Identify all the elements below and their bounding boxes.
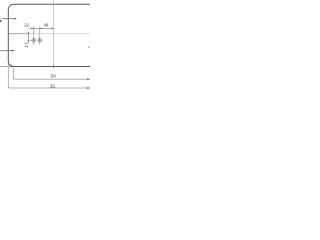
17 vertical dimension line — [28, 32, 30, 43]
svg-text:311: 311 — [50, 84, 56, 89]
254 right arrow — [87, 78, 90, 80]
svg-text:254: 254 — [50, 74, 56, 79]
311 extension line (below part left edge) — [8, 63, 90, 89]
right edge speck — [88, 46, 89, 48]
17 top arrow — [28, 32, 29, 34]
311 right arrow — [87, 87, 90, 89]
hole 1 horizontal centermark — [31, 39, 36, 41]
svg-text:22: 22 — [24, 23, 29, 28]
part outline bottom edge — [14, 66, 90, 68]
arrow at x=39.7 pointing left (22 right / 46 left) — [40, 28, 42, 30]
internal seam line y=33.7 — [9, 33, 29, 35]
leader arrow middle-left — [0, 50, 12, 52]
part outline left edge — [7, 10, 9, 61]
centerline tick crossing bottom edge — [53, 64, 55, 69]
hole 2 — [38, 38, 42, 42]
hole 1 — [32, 38, 36, 42]
254 extension bracket — [14, 67, 91, 79]
part outline bottom-left corner arc — [8, 61, 14, 67]
leader arrow top (cropped label) — [2, 18, 15, 20]
part outline top edge — [14, 3, 90, 5]
leader line bottom-left to bottom edge — [0, 65, 11, 67]
part outline top-left corner arc — [8, 4, 13, 10]
dimension line y=28.4 (22 and 46) — [30, 27, 54, 29]
arrow at x=33.7 pointing right (22 left, outside) — [32, 28, 34, 30]
svg-text:17: 17 — [24, 42, 29, 48]
centerline x=53.5 — [53, 0, 55, 64]
17 extension at hole level — [27, 40, 32, 42]
svg-text:46: 46 — [44, 22, 49, 27]
arrow at x=53.6 pointing right (46 right) — [51, 28, 53, 30]
cropped text fragment at left edge — [0, 20, 2, 23]
hole 2 horizontal centermark — [37, 39, 42, 41]
17 bottom arrow — [28, 41, 29, 43]
hole 1 centerline — [33, 26, 35, 44]
hole 2 centerline — [39, 26, 41, 44]
